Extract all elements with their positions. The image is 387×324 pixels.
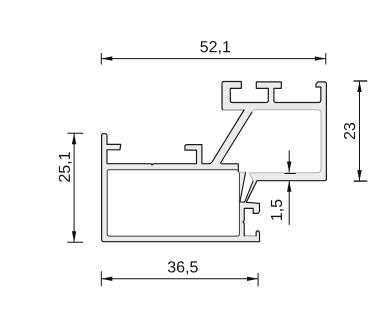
dark edges of upper cavity: diagonal web, step and slot-tail: [221, 112, 253, 202]
dimension line 25,1 (left): [73, 133, 75, 242]
arrowhead down of dimension 1,5: [287, 162, 291, 173]
extension tick bottom of dimension 23: [354, 180, 368, 182]
extension tick left of dimension 36,5: [100, 271, 102, 286]
arrowhead right of dimension 36,5: [247, 277, 258, 281]
dimension line 36,5 (bottom): [101, 278, 258, 280]
dimension text 25,1 (rotated): [59, 152, 72, 182]
lower chamber cavity (36,5 x 25,1 box hollow): [107, 170, 239, 236]
dimension line 23 (right): [359, 81, 361, 181]
extension tick left of dimension 52,1: [100, 53, 102, 65]
profile body: aluminium frame cross-section outer contour with top accessory grooves, hooks and foot: [102, 82, 327, 242]
extension tick right of dimension 36,5: [257, 273, 259, 286]
tick mark of dimension 1,5: [284, 173, 295, 175]
extension tick top of dimension 23: [354, 80, 368, 82]
dimension line 1,5 upper segment: [288, 150, 290, 172]
arrowhead right of dimension 52,1: [315, 56, 326, 60]
dimension text 36,5: [168, 261, 198, 274]
upper chamber cavity (23 high hollow with slanted slot-tail at lower left): [221, 110, 321, 202]
arrowhead bottom of dimension 25,1: [72, 231, 76, 242]
extension tick top of dimension 25,1: [67, 132, 83, 134]
dimension line 52,1 (top): [101, 58, 325, 60]
arrowhead up of dimension 1,5: [287, 181, 291, 192]
arrowhead top of dimension 25,1: [72, 133, 76, 144]
dimension text 23 (rotated): [344, 123, 355, 139]
arrowhead bottom of dimension 23: [357, 170, 361, 181]
light edge: foot notch floor: [245, 235, 256, 237]
dimension line 1,5 lower segment: [288, 181, 290, 225]
dimension text 52,1: [200, 41, 230, 54]
extension tick bottom of dimension 25,1: [67, 241, 83, 243]
light edge: groove base wall underside: [223, 109, 243, 111]
arrowhead top of dimension 23: [357, 81, 361, 92]
dimension text 1,5 (rotated): [271, 200, 284, 220]
extension tick right of dimension 52,1: [325, 53, 327, 65]
arrowhead left of dimension 52,1: [101, 56, 112, 60]
arrowhead left of dimension 36,5: [101, 277, 112, 281]
